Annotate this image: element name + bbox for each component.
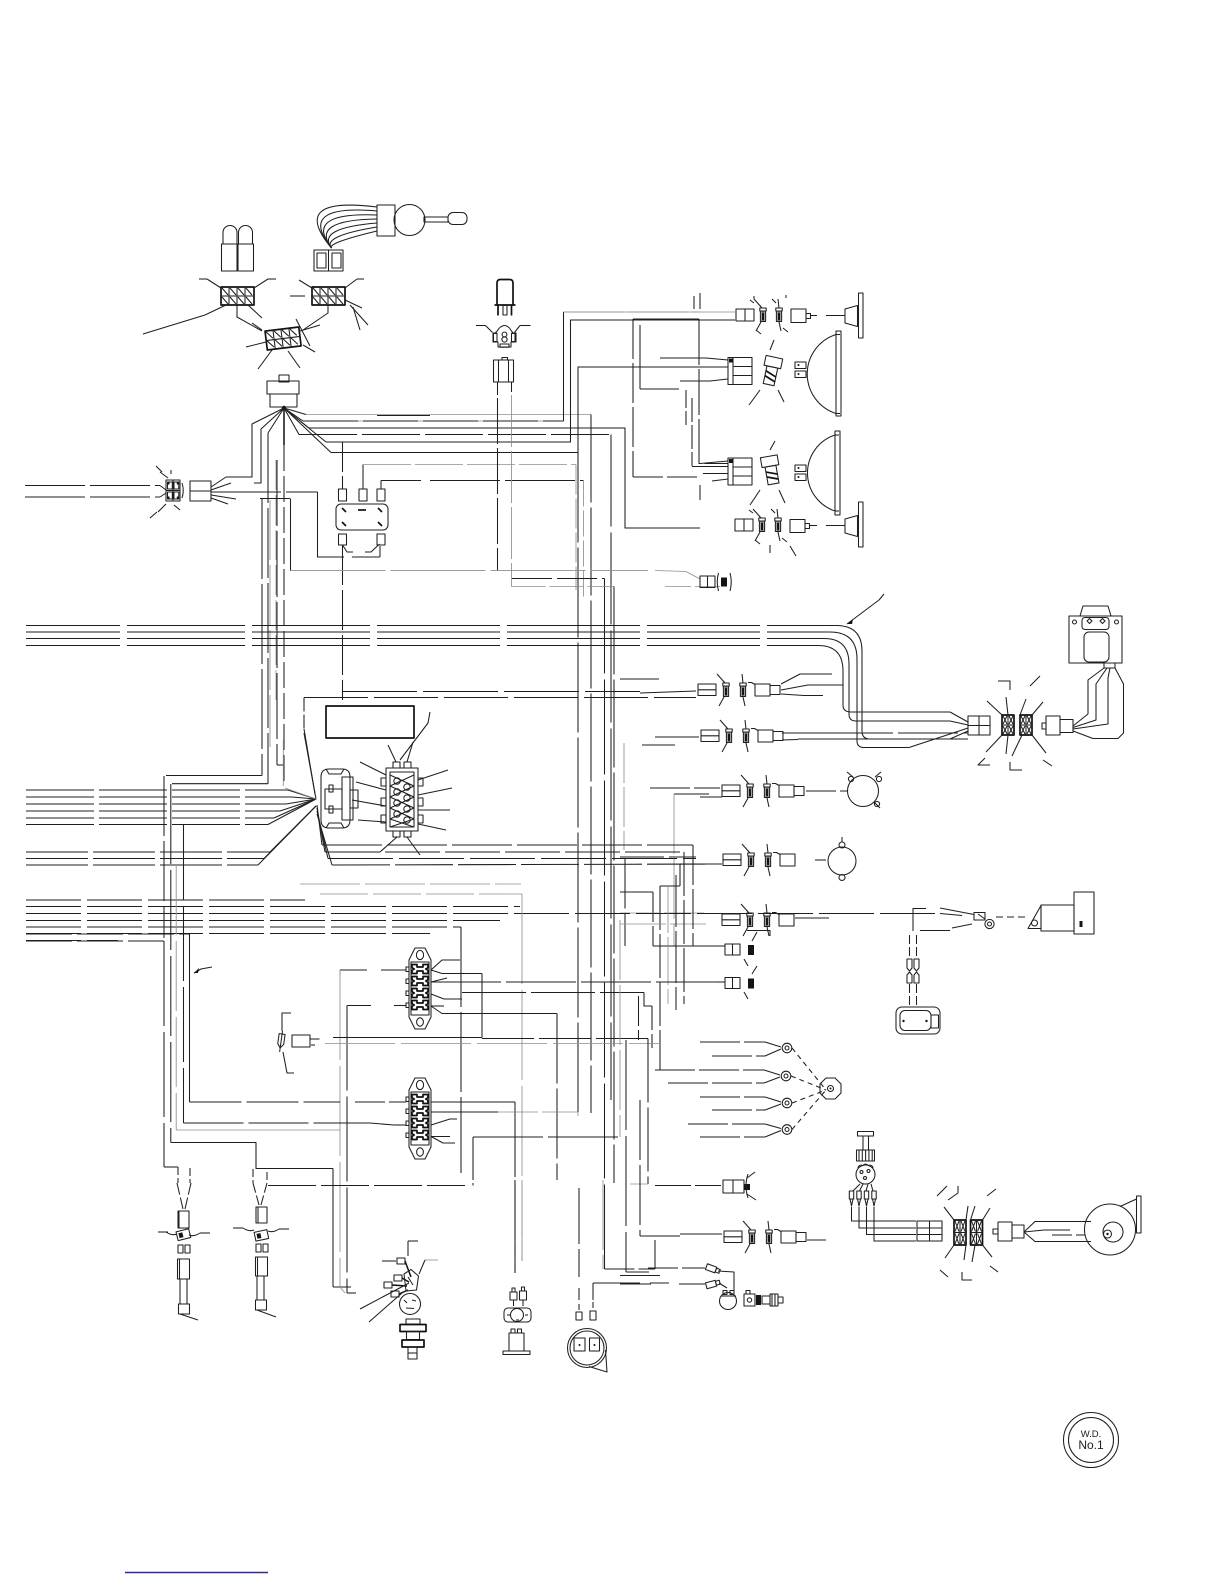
ignition timing window	[400, 1294, 421, 1315]
stop light switch (upper body)	[495, 280, 516, 316]
wire: park lamp RH feed	[303, 312, 736, 421]
wire C to E	[237, 305, 262, 331]
headlamp RH sealed beam	[795, 331, 841, 416]
condenser	[744, 1291, 761, 1307]
wire: headlamp feed risers	[326, 320, 735, 442]
wire: starter cable run	[940, 914, 962, 916]
parking lamp LH	[826, 502, 863, 547]
ignition coil	[720, 1291, 737, 1310]
connector row 4 (courtesy)	[620, 743, 826, 1070]
ignition cable assembly RH	[233, 1169, 289, 1317]
wires to fuel tank sender	[907, 935, 919, 1005]
wire risers from cluster down-left	[164, 776, 184, 1143]
headlamp LH connector	[692, 458, 752, 500]
regulator terminal wires	[343, 442, 584, 700]
fuel tank sender unit	[896, 1007, 940, 1034]
wires: relay to blower motor	[1024, 1222, 1091, 1242]
wire y578 to riser x604	[512, 578, 605, 580]
4-way body connector	[968, 716, 990, 735]
turn signal / light switch assembly	[377, 205, 467, 237]
connector row 2 (tail harness)	[642, 720, 968, 752]
flasher fan-out wires	[166, 408, 331, 786]
wire riser x591 down	[590, 415, 592, 1114]
ignition cable assembly LH	[158, 1183, 210, 1320]
stop light switch lower body	[494, 358, 514, 396]
wires into parking lamp RH	[377, 293, 700, 416]
wire: horn feed y571	[291, 570, 649, 572]
dimmer switch	[400, 1319, 426, 1359]
horn bracket device	[503, 1329, 530, 1355]
heater blower motor	[1085, 1196, 1142, 1255]
ignition coil wires (left bottom)	[620, 1039, 705, 1285]
battery cable lug and ring terminal	[940, 908, 1026, 929]
parking lamp LH connector set	[735, 509, 817, 556]
speedometer connector	[150, 466, 183, 518]
left harness bundle group A (6 wires)	[26, 790, 316, 825]
wire y586 to riser x614	[512, 586, 615, 588]
headlamp RH bulb socket	[749, 340, 784, 405]
distributor harness connector	[917, 1221, 942, 1241]
wire D to E	[303, 305, 328, 330]
wire riser x611	[299, 434, 611, 436]
leader lines from lower-left to distributor	[360, 1283, 409, 1309]
horn (battery-style symbol)	[1069, 606, 1122, 668]
voltage regulator	[336, 489, 388, 545]
W.D. No.1 stamp	[1064, 1413, 1119, 1468]
courtesy lamp (with ears)	[828, 837, 856, 881]
wire: speedo box to regulator ground loop	[318, 492, 345, 557]
speedometer head box	[190, 477, 318, 504]
leader arrow to harness corner	[847, 600, 879, 624]
wires long y692/697	[342, 691, 640, 693]
footer rule	[125, 1572, 268, 1574]
connector block E (mated pair)	[246, 319, 320, 369]
dome lamp (with ears)	[847, 772, 882, 808]
headlamp LH bulb socket	[750, 441, 785, 505]
wires: lower-left corner runs	[171, 970, 394, 1293]
oil pressure sender connector	[630, 1172, 756, 1200]
spark plug wires	[849, 1184, 916, 1241]
fuse block leader wires	[352, 712, 452, 855]
4-way connector mated cross-blocks	[978, 676, 1052, 770]
wire y934/941 risers to coil leads	[26, 933, 190, 935]
wire x633 and x699 headlamp drops	[633, 318, 699, 320]
left harness bundle group B (3 wires)	[26, 806, 316, 865]
wires down to horn assembly	[514, 1180, 516, 1273]
wire: stoplight switch drops	[497, 398, 499, 571]
fuel gauge terminals	[576, 1311, 596, 1320]
distributor terminals and cap	[382, 1241, 438, 1297]
dome lamp feed connector row 1	[620, 674, 843, 706]
starter cable junction marks	[913, 908, 950, 931]
fuse and terminal block (crosshatched)	[381, 762, 423, 837]
circuit breaker inline	[277, 1013, 320, 1073]
svg-text:No.1: No.1	[1078, 1438, 1104, 1452]
distributor cross-block pair	[937, 1186, 998, 1280]
horn bullet terminals	[510, 1287, 527, 1306]
connector block C with leads	[143, 279, 276, 334]
accessory connector set upper	[707, 931, 770, 967]
wires into 4-way connector (converging)	[909, 712, 968, 748]
wire trunk break texture	[120, 622, 767, 649]
fuel gauge wires	[579, 1180, 669, 1310]
wire gray y1043	[325, 1043, 660, 1045]
horn relay connector	[1042, 716, 1073, 735]
wire bundle from light switch to connector	[317, 205, 377, 248]
radio suppression label box	[326, 706, 414, 738]
ground ring terminals with bolt	[655, 1042, 841, 1137]
starter motor	[1028, 892, 1094, 934]
dual fuse holder	[222, 226, 254, 272]
parking lamp RH	[826, 293, 863, 338]
fuse block upper	[406, 948, 431, 1029]
ignition switch	[321, 769, 358, 828]
distributor cap	[856, 1164, 875, 1184]
distributor assembly upper	[857, 1132, 875, 1162]
connector row 3 (dome)	[650, 775, 847, 946]
blower relay connector	[993, 1222, 1024, 1241]
coil bullet terminals	[705, 1264, 734, 1293]
wire y927 riser x461	[460, 927, 462, 1173]
ignition switch wire fan	[285, 733, 332, 865]
stop light switch mating connector	[476, 326, 531, 348]
flasher unit	[267, 375, 299, 410]
accessory connector set lower	[716, 966, 757, 999]
connector (2-cavity) below switch bundle	[314, 250, 343, 271]
headlamp LH sealed beam	[795, 431, 840, 515]
wires: battery to horn relay	[1073, 668, 1124, 739]
fuse block upper leads	[333, 960, 716, 1293]
leader arrow at harness	[194, 967, 212, 973]
left harness bundle group C (7 wires)	[26, 900, 940, 941]
fuse block lower leads	[190, 920, 639, 1273]
inline connector (horn lead)	[700, 573, 731, 591]
temp sender connector row	[605, 1100, 827, 1269]
parking lamp RH connector set	[736, 295, 817, 334]
coil connector	[762, 1294, 783, 1306]
wire bundle: main harness trunk	[26, 626, 950, 748]
headlamp RH connector	[660, 358, 752, 385]
horn small	[504, 1308, 531, 1322]
wire y884 gray	[300, 883, 521, 885]
speedometer cable wires	[25, 486, 166, 498]
wire y894 riser x522	[320, 893, 522, 895]
wire: tail/park feed via riser x564	[306, 414, 591, 416]
wire: park lamp dark feed	[309, 428, 700, 528]
wires: switch outputs going right	[322, 844, 693, 846]
fuse block lower	[406, 1078, 431, 1159]
connector block D with leads	[290, 279, 368, 330]
connector row 5 (starter feed)	[620, 904, 829, 936]
wire riser x578 long	[577, 453, 579, 1113]
fuel gauge	[568, 1329, 608, 1373]
